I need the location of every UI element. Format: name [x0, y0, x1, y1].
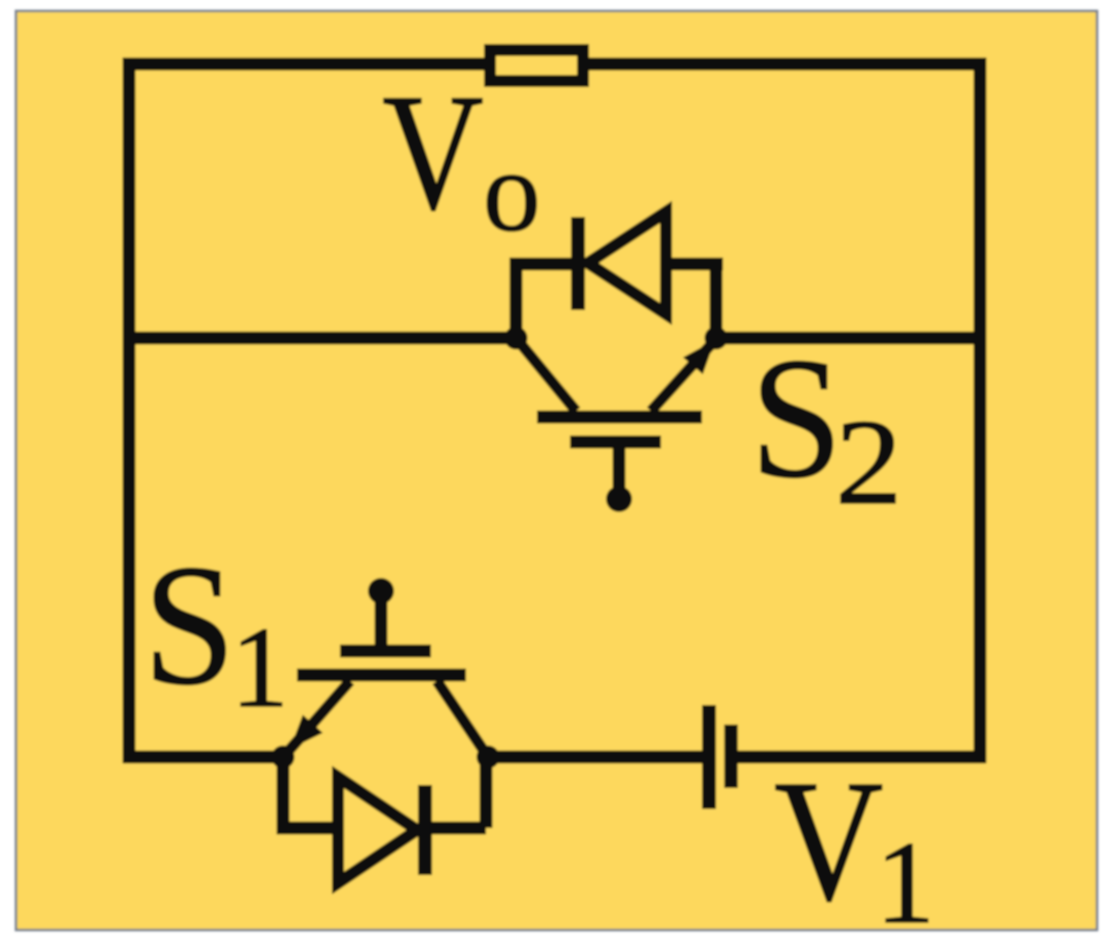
svg-text:1: 1: [876, 817, 935, 948]
svg-text:o: o: [483, 128, 541, 255]
svg-text:2: 2: [835, 395, 902, 530]
svg-text:V: V: [382, 61, 483, 245]
svg-text:S: S: [143, 529, 235, 721]
svg-text:V: V: [774, 745, 883, 937]
svg-text:S: S: [750, 322, 842, 514]
svg-text:1: 1: [231, 604, 289, 731]
